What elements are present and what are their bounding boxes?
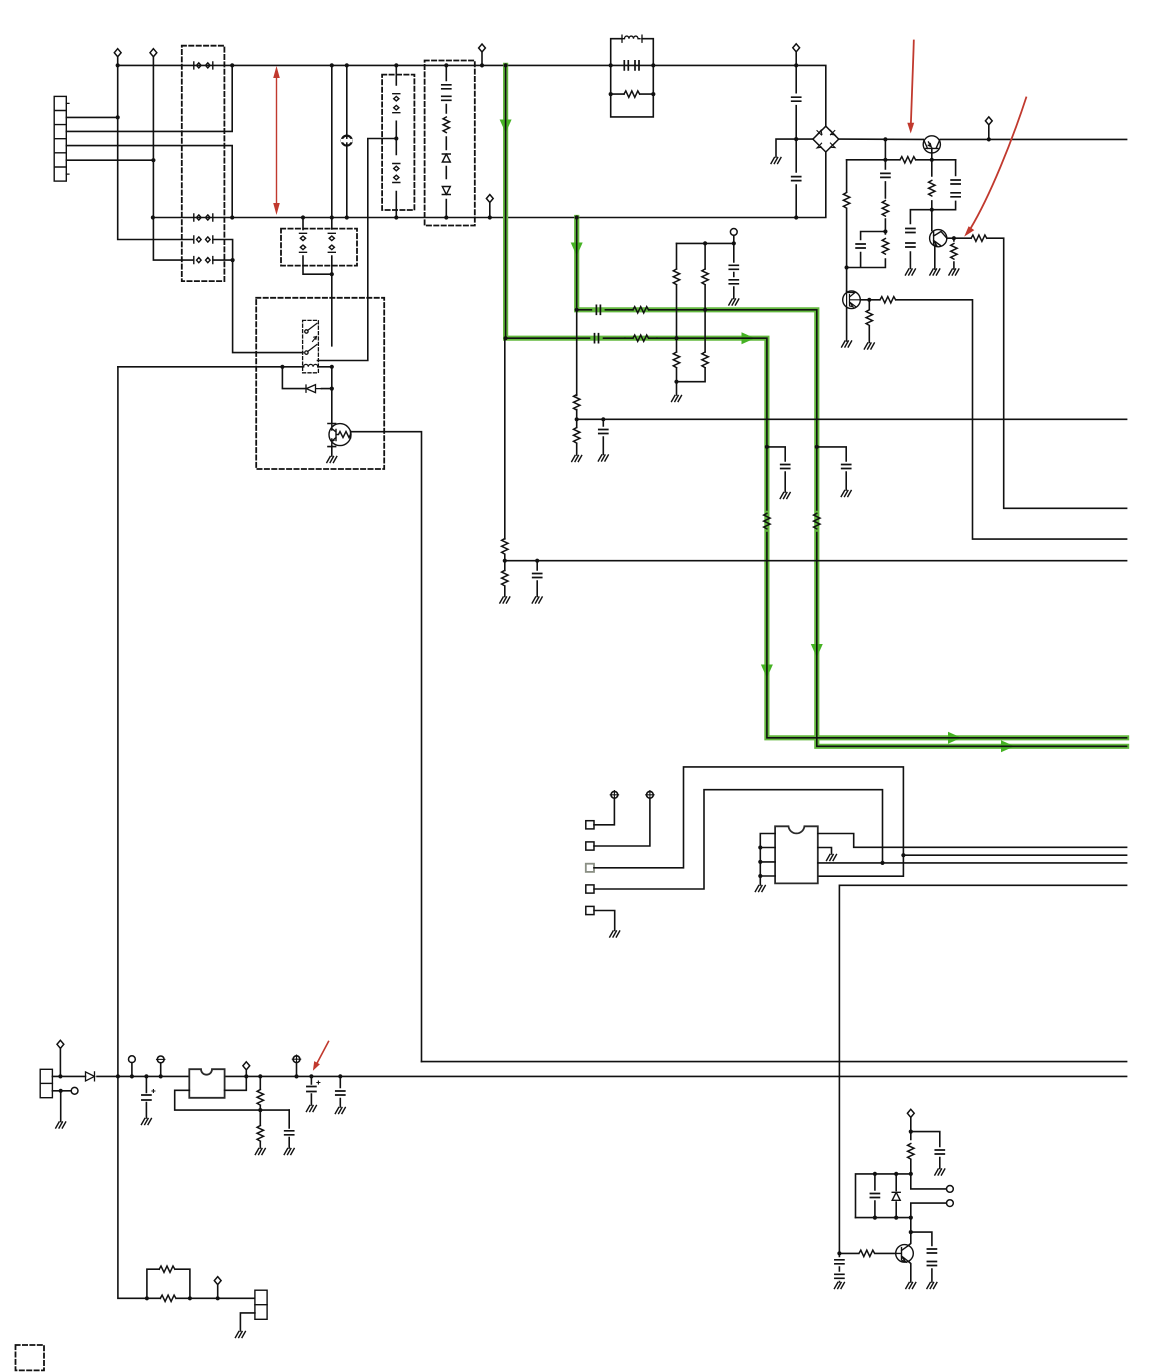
wire choke4 out [213, 259, 233, 261]
ground [598, 455, 608, 461]
stub [59, 1048, 61, 1076]
junction [59, 1089, 63, 1093]
pad square 3 [586, 864, 594, 872]
terminal E bottom [486, 195, 493, 203]
junction [601, 417, 605, 421]
RC network left leg [856, 1174, 911, 1218]
divider line [259, 1076, 261, 1148]
adj cap [285, 1131, 294, 1135]
terminal minus [157, 1056, 165, 1063]
junction [503, 559, 507, 563]
junction [480, 63, 484, 67]
connector J1 [54, 96, 69, 181]
ground [284, 1149, 294, 1155]
base drive row [847, 159, 956, 161]
EMI filter box (dashed) [182, 46, 225, 281]
junction [837, 1251, 841, 1255]
ground [56, 1122, 66, 1128]
bulk cap line [838, 1253, 840, 1282]
red arrow 1 [907, 41, 914, 134]
divider resistor bottom [257, 1126, 263, 1142]
ground [335, 1108, 345, 1114]
green arrow down 4 [811, 644, 823, 658]
ground [780, 493, 790, 499]
junction [294, 1074, 298, 1078]
emitter leg resistor line [953, 238, 955, 269]
pad square 4 [586, 885, 594, 893]
choke winding 1 [194, 62, 213, 69]
wire IC pin7 gnd [818, 848, 832, 855]
ground [327, 457, 337, 463]
ground [141, 1119, 151, 1125]
net zener [895, 1174, 897, 1218]
T1 capacitor 1 [624, 61, 628, 70]
junction [394, 136, 398, 140]
ground [306, 1106, 316, 1112]
terminal N [150, 49, 157, 57]
wire Q3 collector [846, 290, 848, 293]
junction [845, 265, 849, 269]
junction [867, 298, 871, 302]
junction [330, 63, 334, 67]
feed cap [935, 1150, 944, 1154]
terminal doubler [793, 44, 800, 52]
snubber resistor [882, 201, 888, 217]
net cap 1 [874, 1174, 876, 1218]
wire J2 pin2 [52, 1090, 71, 1092]
IC U1 body [775, 826, 818, 883]
base shunt resistor [866, 310, 872, 326]
startup cap 1 [729, 265, 738, 269]
wire Q5 collector [908, 1232, 911, 1246]
adj cap line [288, 1110, 290, 1148]
relay contact 1 [305, 323, 317, 333]
ground [572, 456, 582, 462]
PE1 line resistor [764, 513, 770, 529]
terminal E top [479, 44, 486, 52]
wire IC pin8 net [818, 834, 1127, 848]
stub [988, 125, 990, 139]
stub [795, 52, 797, 66]
green arrow down 2 [571, 243, 583, 257]
junction [258, 1108, 262, 1112]
U2 output pin2 loop [225, 1076, 247, 1090]
feedback resistor bottom [160, 1295, 176, 1301]
junction [345, 215, 349, 219]
junction [116, 115, 120, 119]
wire pad1 [594, 798, 614, 825]
collector resistor [971, 235, 987, 241]
divider resistor bottom [574, 428, 580, 444]
junction [338, 1074, 342, 1078]
wire J1 pin4 [66, 146, 232, 218]
sense divider line [576, 310, 578, 455]
bottom feedback wire [147, 1297, 255, 1299]
junction [883, 158, 887, 162]
junction [504, 63, 508, 67]
wire Q1 emitter [931, 148, 933, 209]
junction [230, 215, 234, 219]
green arrow down 1 [500, 120, 512, 134]
relay actuate arrow [313, 337, 317, 342]
feedback cap 2 [951, 193, 960, 197]
wire bridge AC left [776, 139, 813, 157]
stub [489, 203, 491, 218]
pad square 2 [586, 842, 594, 850]
ground [827, 855, 837, 861]
stub [245, 1070, 247, 1077]
doubler cap C2 [792, 177, 801, 181]
green highlight path 2 [577, 218, 1127, 747]
startup resistor 2b [702, 352, 708, 368]
junction [758, 845, 762, 849]
junction [230, 63, 234, 67]
startup resistor 1b [673, 352, 679, 368]
junction [330, 215, 334, 219]
U2 adj loop [175, 1090, 290, 1110]
terminal V1 [610, 791, 618, 799]
snubber cap [881, 173, 890, 177]
bulk cap 2 [835, 1274, 844, 1278]
pad square 1 [586, 821, 594, 829]
X-cap branch line [331, 65, 333, 345]
zener B2 [442, 187, 450, 195]
junction [894, 1172, 898, 1176]
wire Q3 emitter [846, 308, 848, 341]
box B line [445, 65, 447, 217]
junction [609, 63, 613, 67]
ground [834, 1283, 844, 1289]
red arrow 2 [964, 98, 1026, 237]
bulk cap 1 [835, 1260, 844, 1264]
regulator U2 body [189, 1069, 224, 1098]
series diode [86, 1072, 95, 1081]
T1 resistor row [611, 93, 654, 95]
wire pad2 [594, 798, 650, 846]
junction [674, 380, 678, 384]
junction [244, 1074, 248, 1078]
wire branch net [903, 854, 1126, 856]
terminal feed [907, 1109, 914, 1117]
junction [952, 236, 956, 240]
terminal in [129, 1056, 136, 1063]
choke winding 3 [194, 236, 213, 243]
base resistor [900, 157, 916, 163]
wire pad4 net [594, 790, 883, 889]
feed cap branch [911, 1132, 940, 1169]
wire coil drive [118, 366, 332, 368]
junction [883, 137, 887, 141]
ground [935, 1169, 945, 1175]
RC network bottom rail [856, 1217, 911, 1219]
junction [609, 92, 613, 96]
junction [651, 63, 655, 67]
wire IC pin6 net [818, 862, 1127, 864]
junction [703, 308, 707, 312]
junction [394, 63, 398, 67]
T1 resistor [624, 91, 640, 97]
zener B1 [442, 154, 450, 162]
flyback diode [306, 385, 322, 393]
aux resistor top [502, 539, 508, 555]
junction [987, 137, 991, 141]
transistor Q2 [930, 230, 947, 247]
junction [280, 365, 284, 369]
bridge rectifier [813, 126, 839, 152]
junction [116, 63, 120, 67]
choke winding 4 [194, 257, 213, 264]
junction [444, 215, 448, 219]
junction [575, 417, 579, 421]
output stub 1 [911, 1174, 947, 1189]
out cap [336, 1091, 345, 1095]
PE2 line resistor [814, 513, 820, 529]
snubber line [884, 139, 886, 231]
pin2 gnd line [60, 1091, 62, 1122]
ground [235, 1332, 245, 1338]
ground [500, 597, 510, 603]
choke C winding 2 [328, 233, 335, 252]
standby rail vertical [118, 367, 147, 1299]
red span arrow [273, 66, 280, 215]
wire mains top rail [118, 65, 826, 126]
terminal plus [292, 1055, 300, 1063]
fuse F1 [341, 136, 353, 146]
junction [815, 445, 819, 449]
transistor Q3 [843, 291, 861, 309]
stub [131, 1063, 133, 1077]
wire box A tap [318, 139, 397, 361]
ground [905, 269, 915, 275]
junction [575, 308, 579, 312]
terminal o2 [947, 1200, 954, 1207]
resistor B [443, 117, 449, 133]
terminal out [243, 1062, 250, 1070]
doubler cap line [795, 65, 797, 217]
junction [651, 92, 655, 96]
T1 capacitor 2 [635, 61, 639, 70]
startup res line 1 [676, 243, 678, 395]
wire Q4 collector [328, 367, 336, 424]
terminal o1 [947, 1186, 954, 1193]
RC pair top wire [847, 232, 886, 268]
junction [901, 853, 905, 857]
feed resistor [908, 1144, 914, 1160]
junction [151, 158, 155, 162]
ground [771, 158, 781, 164]
terminal aux in [57, 1040, 64, 1048]
startup top wire [677, 242, 734, 244]
base shunt line [868, 300, 870, 343]
wire neutral vertical [153, 57, 193, 260]
wire Q2 emitter [934, 246, 936, 269]
junction [883, 229, 887, 233]
standby supply wire [52, 1075, 1126, 1077]
green arrow right 2 [948, 732, 962, 744]
junction [309, 1074, 313, 1078]
green arrow down 3 [761, 665, 773, 679]
startup cap branch [733, 243, 735, 298]
junction [488, 215, 492, 219]
PE2 series resistor [633, 307, 649, 313]
wire base loop bottom [422, 1061, 1127, 1063]
PE2 branch cap [817, 447, 846, 490]
startup resistor 1a [673, 269, 679, 285]
junction [894, 1216, 898, 1220]
divider resistor top [257, 1090, 263, 1106]
PE wire core 1 [506, 65, 1127, 737]
aux filter cap [536, 561, 538, 597]
stub [481, 52, 483, 65]
ground [930, 269, 940, 275]
ground [927, 1283, 937, 1289]
junction [732, 241, 736, 245]
feedback cap 1 [951, 180, 960, 184]
PE2 series cap [596, 305, 600, 314]
wire feedback loop net [839, 885, 1126, 1253]
junction [930, 158, 934, 162]
junction [444, 63, 448, 67]
junction [394, 215, 398, 219]
RC pair cap [856, 244, 865, 248]
junction [301, 215, 305, 219]
stub [160, 1063, 162, 1077]
startup res line 2 [677, 243, 706, 381]
wire J1 pin2 [66, 116, 117, 118]
junction [765, 445, 769, 449]
green highlight path 1 [506, 65, 1127, 737]
red arrow 3 [313, 1042, 329, 1071]
ground [864, 343, 874, 349]
Q1 emitter resistor [929, 180, 935, 196]
protection box B (dashed) [425, 61, 475, 226]
startup terminal [730, 229, 737, 236]
divider resistor top [574, 395, 580, 411]
decouple cap 2 [906, 243, 915, 247]
RC pair resistor [882, 239, 888, 255]
startup cap 2 [729, 280, 738, 284]
IC left pin bus [760, 834, 775, 886]
ground [532, 597, 542, 603]
wire Q2 base [931, 210, 933, 231]
junction [330, 365, 334, 369]
output stub 2 [911, 1203, 947, 1218]
transistor Q1 [923, 136, 940, 153]
junction [231, 258, 235, 262]
PE1 series resistor [625, 337, 657, 339]
feedback resistor top [159, 1266, 175, 1272]
junction [159, 1074, 163, 1078]
choke C winding 1 [303, 218, 332, 275]
ground [949, 269, 959, 275]
junction [794, 137, 798, 141]
junction [504, 336, 508, 340]
ground [842, 341, 852, 347]
sense filter cap [602, 419, 604, 454]
stub [217, 1285, 219, 1299]
junction [116, 1074, 120, 1078]
junction [144, 1074, 148, 1078]
terminal fb [214, 1277, 221, 1285]
legend dashed box [16, 1345, 45, 1370]
surge arrester 1 [393, 94, 400, 113]
bias resistor [843, 193, 849, 209]
aux resistor bottom [502, 570, 508, 586]
ground [610, 931, 620, 937]
junction [909, 1230, 913, 1234]
ground [255, 1149, 265, 1155]
relay coil [304, 364, 318, 366]
relay inner box (dashed) [303, 320, 319, 372]
base resistor [859, 1250, 875, 1256]
green arrow right 1 [742, 332, 756, 344]
terminal V2 [646, 791, 654, 799]
wire Q5 emitter [909, 1262, 911, 1283]
terminal pin2 [71, 1087, 78, 1094]
PE1 branch cap [767, 447, 785, 492]
relay contact 2 [305, 345, 317, 355]
wire choke3 out [213, 240, 303, 353]
junction [674, 336, 678, 340]
wire Q5 base [839, 1252, 895, 1254]
aux divider line [504, 338, 506, 596]
terminal L [114, 49, 121, 57]
aux net wire [505, 560, 1127, 562]
junction [794, 215, 798, 219]
input cap [142, 1090, 155, 1101]
wire mains bottom rail [153, 152, 826, 218]
junction [130, 1074, 134, 1078]
junction [909, 1216, 913, 1220]
stub [296, 1063, 298, 1077]
choke winding 2 [194, 214, 213, 221]
out zener cap [307, 1081, 320, 1092]
ground [906, 1283, 916, 1289]
relay box (dashed) [256, 298, 384, 469]
left bias line [846, 160, 848, 291]
out cap line [339, 1076, 341, 1107]
wire collector to rail [910, 1218, 912, 1233]
varistor box A (dashed) [382, 75, 414, 210]
PE1 series cap [595, 334, 599, 343]
junction [330, 387, 334, 391]
junction [535, 559, 539, 563]
startup resistor 2a [702, 269, 708, 285]
wire Q2 collector [947, 238, 1127, 508]
ground [841, 491, 851, 497]
out zener line [310, 1076, 312, 1105]
collector cap 2 [927, 1262, 936, 1266]
junction [330, 272, 334, 276]
junction [188, 1296, 192, 1300]
feedback caps line [910, 160, 955, 269]
parallel res loop [147, 1269, 190, 1298]
ground [755, 886, 765, 892]
emitter leg resistor [951, 244, 957, 260]
doubler cap C1 [792, 97, 801, 101]
junction [794, 63, 798, 67]
PE wire core 2 [577, 218, 1127, 747]
decouple cap 1 [906, 229, 915, 233]
junction [345, 63, 349, 67]
base row resistor [880, 297, 896, 303]
transistor Q5 [896, 1245, 914, 1263]
wire J1 pin5 [66, 159, 153, 161]
capacitor B1 [442, 85, 451, 89]
junction [575, 215, 579, 219]
terminal HV [985, 117, 992, 125]
ground [729, 299, 739, 305]
